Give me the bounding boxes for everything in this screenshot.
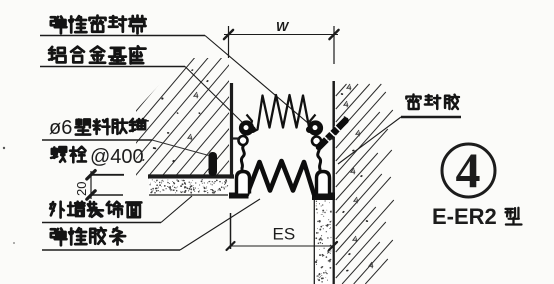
- svg-text:20: 20: [74, 182, 89, 196]
- left seal nub: [249, 126, 256, 133]
- leader for plastic anchor: [42, 139, 152, 141]
- svg-text:@400: @400: [90, 146, 144, 168]
- right seal nub: [306, 126, 313, 133]
- label: sealant 密封胶: [406, 95, 420, 109]
- leader for rubber strip: [42, 249, 180, 251]
- leader for sealing band: [40, 35, 205, 37]
- finish band (stipple): [149, 179, 230, 194]
- scan specks: [3, 147, 5, 149]
- right wall hatched masonry: [336, 84, 394, 284]
- left base plate: [229, 193, 249, 199]
- dimension 20: [90, 171, 92, 199]
- embedded anchor bolt: [209, 152, 218, 176]
- tiny triangle marks: [194, 92, 198, 98]
- ES dimension line across strip: [312, 245, 335, 247]
- label: elastic sealing band 弹性密封带: [51, 17, 67, 34]
- right clamp: anchor bar into wall: [319, 121, 346, 148]
- label: aluminium base 铝合金基座: [49, 47, 65, 62]
- top sealing band bellows: [255, 95, 312, 131]
- svg-text:ø6: ø6: [49, 117, 72, 139]
- svg-text:E-ER2: E-ER2: [432, 204, 497, 229]
- right clamp: stem: [318, 146, 321, 172]
- left clamp: nut ring: [239, 136, 248, 145]
- dimension W: [228, 26, 230, 58]
- label: exterior wall finish 外墙装饰面: [50, 202, 64, 218]
- label: elastic rubber strip 弹性胶条: [51, 229, 67, 246]
- svg-text:ES: ES: [273, 225, 296, 244]
- finish band bottom line: [149, 194, 228, 196]
- right wall edge: [332, 81, 335, 199]
- bottom rubber bellows (elastic strip): [243, 161, 314, 195]
- right clamp: bolt head: [308, 115, 316, 129]
- detail number circle: [442, 144, 495, 197]
- right base plate: [312, 193, 335, 201]
- concrete upstand (stipple strip): [314, 199, 333, 284]
- leader for wall finish: [42, 222, 161, 224]
- svg-text:4: 4: [456, 142, 481, 198]
- left clamp: stem: [241, 145, 244, 172]
- leader for aluminium base: [40, 66, 185, 68]
- leader for sealant: [401, 116, 461, 118]
- finish band top line: [148, 174, 234, 178]
- left clamp: bolt head: [247, 115, 255, 129]
- right clamp: nut ring: [312, 137, 321, 146]
- left wall edge: [230, 83, 233, 178]
- label: bolt @400 螺栓@400: [51, 147, 66, 162]
- wall texture specks: [142, 69, 209, 162]
- right rubber foot (arch): [317, 172, 330, 194]
- dimension ES: [230, 213, 232, 249]
- left clamp: wall link: [233, 137, 239, 139]
- svg-text:W: W: [276, 19, 290, 34]
- right clamp: wall link: [328, 137, 334, 139]
- left rubber foot (arch): [237, 172, 250, 194]
